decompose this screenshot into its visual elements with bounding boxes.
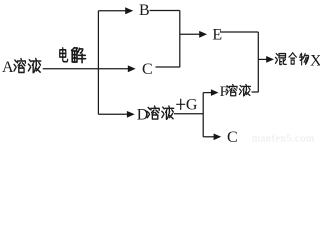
arrowhead to E	[199, 31, 207, 38]
svg-text:E: E	[212, 27, 222, 44]
svg-text:manfen5.com: manfen5.com	[252, 134, 314, 145]
wire: line from C to right vertical	[156, 66, 180, 68]
wire: arrow line to mixture X	[258, 58, 267, 60]
svg-text:X: X	[310, 52, 320, 69]
wire: electrolysis line from A to C	[43, 68, 129, 70]
svg-text:D: D	[137, 107, 149, 124]
svg-text:A: A	[2, 59, 14, 76]
arrowhead to C (middle)	[128, 65, 136, 72]
wire: vertical joining F and bottom C branches	[202, 93, 204, 137]
node F: label "F溶液"	[220, 84, 251, 100]
arrowhead to mixture X	[266, 56, 274, 63]
wire: vertical joining E and F outputs	[257, 32, 259, 92]
svg-text:G: G	[186, 97, 198, 114]
arrowhead to F	[211, 89, 219, 96]
svg-text:C: C	[142, 61, 153, 78]
svg-text:B: B	[139, 2, 150, 19]
node D: label "D溶液"	[137, 106, 174, 124]
node A: label "A溶液"	[2, 59, 41, 77]
arrowhead to B	[125, 7, 133, 14]
label 电解 (electrolysis) above line	[60, 48, 86, 63]
wire: line from B to right vertical	[150, 10, 180, 12]
node 混合物X (mixture X)	[276, 52, 320, 69]
svg-text:F: F	[220, 84, 228, 100]
wire: +G reaction line	[174, 113, 203, 115]
wire: arrow line to F	[203, 92, 211, 94]
wire: vertical joining B and C outputs	[179, 11, 181, 68]
arrowhead to bottom C	[214, 134, 222, 141]
svg-text:C: C	[227, 129, 238, 144]
label +G reagent	[176, 97, 198, 114]
wire: main vertical trunk from B branch down to D branch	[97, 11, 99, 115]
wire: line from F to right vertical	[252, 91, 259, 93]
wire: arrow line to B	[98, 10, 126, 12]
wire: arrow line to E	[180, 33, 200, 35]
wire: arrow line to D	[98, 113, 127, 115]
arrowhead to D	[127, 111, 135, 118]
wire: line from E to right vertical	[220, 31, 258, 33]
wire: arrow line to bottom C	[203, 136, 214, 138]
